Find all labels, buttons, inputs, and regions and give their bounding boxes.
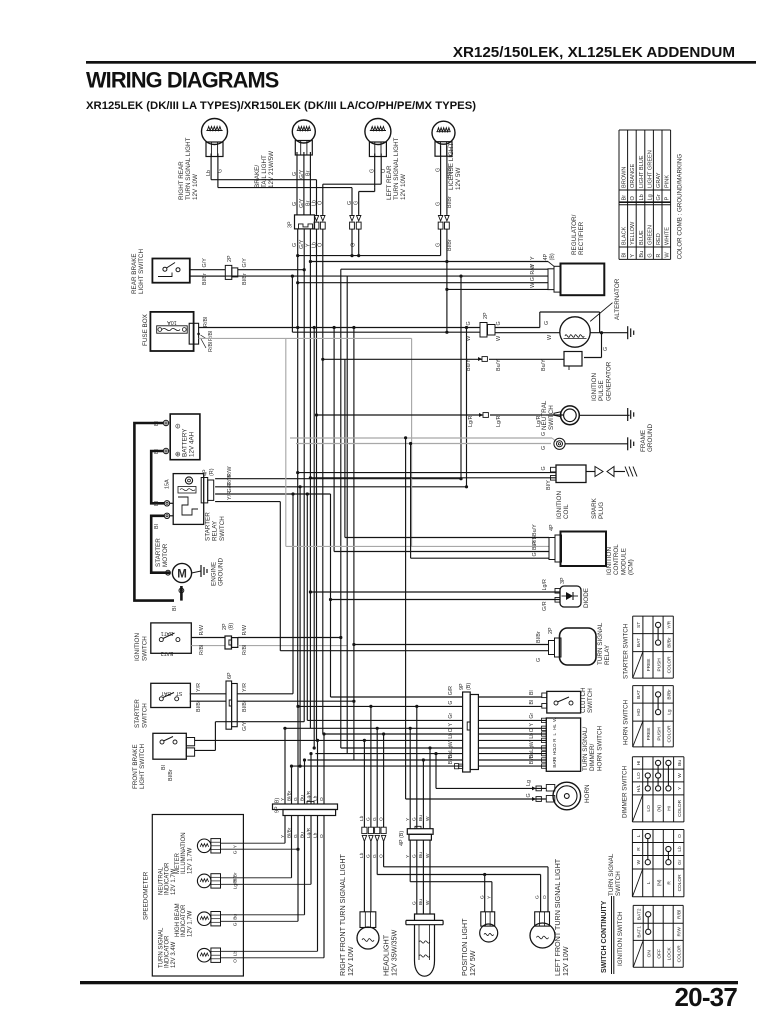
svg-text:G: G (292, 202, 298, 206)
svg-text:G/Y: G/Y (299, 198, 305, 208)
svg-text:GROUND: GROUND (647, 424, 654, 452)
svg-text:ENGINE: ENGINE (211, 562, 218, 586)
svg-text:G: G (372, 817, 378, 821)
svg-text:R: R (656, 254, 662, 258)
svg-text:HORN SWITCH: HORN SWITCH (596, 725, 603, 771)
svg-text:BAT2: BAT2 (636, 908, 642, 920)
svg-text:IGNITION: IGNITION (591, 373, 598, 401)
svg-text:YELLOW: YELLOW (630, 221, 636, 245)
svg-text:BAT1: BAT1 (161, 630, 174, 636)
svg-text:M: M (177, 569, 187, 581)
svg-text:BLACK: BLACK (622, 226, 628, 245)
svg-text:R/Bl: R/Bl (242, 645, 248, 655)
svg-text:(ICM): (ICM) (628, 559, 635, 575)
svg-text:ORANGE: ORANGE (630, 163, 636, 188)
svg-text:SWITCH: SWITCH (219, 516, 226, 541)
svg-text:STARTER: STARTER (134, 699, 141, 728)
svg-text:BRAKE/: BRAKE/ (254, 165, 261, 188)
svg-text:RELAY: RELAY (212, 520, 219, 541)
svg-text:O: O (529, 728, 535, 732)
svg-text:PLUG: PLUG (598, 502, 605, 519)
svg-text:O: O (448, 728, 454, 732)
svg-text:PUSH: PUSH (656, 727, 662, 741)
svg-text:COLOR: COLOR (666, 725, 672, 743)
svg-text:HO: HO (636, 708, 642, 715)
svg-text:LEFT REAR: LEFT REAR (386, 165, 393, 200)
svg-text:DIMMER SWITCH: DIMMER SWITCH (622, 765, 629, 818)
svg-text:RECTIFIER: RECTIFIER (578, 221, 585, 255)
svg-text:Bl: Bl (529, 690, 535, 695)
svg-text:Bl/Br: Bl/Br (447, 239, 453, 251)
svg-text:Lg/R: Lg/R (542, 579, 548, 590)
svg-text:TAIL LIGHT: TAIL LIGHT (261, 155, 268, 188)
svg-text:G: G (370, 169, 376, 173)
svg-text:12V 5W: 12V 5W (468, 950, 477, 976)
svg-text:BAT1: BAT1 (636, 926, 642, 938)
svg-text:COIL: COIL (563, 504, 570, 519)
svg-text:SPARK: SPARK (591, 497, 598, 519)
svg-text:Y/R: Y/R (242, 683, 248, 692)
svg-text:ILLUMINATION: ILLUMINATION (181, 832, 187, 874)
svg-text:SWITCH: SWITCH (615, 871, 622, 896)
svg-text:BAT2: BAT2 (161, 650, 174, 656)
svg-text:RELAY: RELAY (604, 644, 611, 665)
svg-text:Gr: Gr (656, 194, 662, 200)
svg-text:HI: HI (667, 806, 673, 811)
svg-text:O: O (630, 196, 636, 201)
svg-text:Lb: Lb (677, 846, 683, 852)
svg-text:BLUE: BLUE (639, 230, 645, 245)
svg-text:Y: Y (529, 723, 535, 727)
svg-text:(N): (N) (656, 805, 662, 812)
svg-text:G: G (366, 817, 372, 821)
svg-text:6P: 6P (227, 672, 233, 679)
svg-text:12V 3.4W: 12V 3.4W (171, 941, 177, 968)
svg-text:Bl/Y: Bl/Y (546, 480, 552, 490)
svg-text:G/Y: G/Y (202, 258, 208, 268)
svg-text:G: G (530, 277, 536, 281)
svg-text:HORN SWITCH: HORN SWITCH (623, 699, 630, 745)
svg-text:Bl/Y: Bl/Y (532, 540, 538, 550)
svg-text:COLOR: COLOR (666, 656, 672, 674)
svg-text:BAT: BAT (636, 690, 642, 699)
svg-text:Lg: Lg (448, 746, 454, 752)
svg-text:G/Y: G/Y (242, 258, 248, 268)
svg-text:REGULATOR/: REGULATOR/ (571, 214, 578, 255)
svg-text:GROUND: GROUND (218, 558, 225, 586)
svg-text:W: W (636, 859, 642, 864)
svg-text:Bl/Br: Bl/Br (666, 637, 672, 648)
svg-text:Gr: Gr (448, 713, 454, 719)
svg-text:G: G (412, 901, 418, 905)
svg-text:O: O (381, 169, 387, 173)
svg-text:R/W: R/W (530, 263, 536, 274)
svg-text:G: G (347, 201, 353, 205)
svg-text:R: R (667, 881, 673, 885)
svg-text:9P (B): 9P (B) (275, 798, 281, 813)
svg-text:Bl/Br: Bl/Br (447, 166, 453, 178)
svg-text:IGNITION SWITCH: IGNITION SWITCH (617, 911, 624, 966)
svg-text:12V 4AH: 12V 4AH (189, 431, 196, 457)
svg-text:Br: Br (305, 170, 311, 176)
svg-text:12V 1.7W: 12V 1.7W (187, 910, 193, 937)
svg-text:Bl/Br: Bl/Br (242, 273, 248, 285)
svg-text:LIGHT GREEN: LIGHT GREEN (647, 150, 653, 188)
svg-text:Y/R: Y/R (227, 491, 233, 500)
svg-text:PINK: PINK (665, 175, 671, 188)
svg-text:HI: HI (636, 760, 642, 765)
svg-text:15A: 15A (165, 479, 171, 489)
svg-text:LO: LO (636, 772, 642, 779)
svg-text:2P: 2P (227, 255, 233, 262)
svg-text:Bu/Y: Bu/Y (532, 524, 538, 536)
svg-text:FREE: FREE (646, 659, 652, 672)
svg-text:G: G (292, 172, 298, 176)
svg-text:G: G (435, 168, 441, 172)
svg-text:Bu: Bu (639, 251, 645, 258)
svg-text:LIGHT SWITCH: LIGHT SWITCH (138, 249, 145, 294)
svg-text:IGNITION: IGNITION (556, 491, 563, 519)
svg-text:G: G (479, 895, 485, 899)
svg-text:Bl: Bl (622, 253, 628, 258)
svg-text:Bl: Bl (161, 765, 167, 770)
svg-text:LICENSE LIGHT: LICENSE LIGHT (448, 143, 455, 190)
svg-text:RIGHT REAR: RIGHT REAR (178, 161, 185, 200)
svg-text:12V 10W: 12V 10W (561, 946, 570, 976)
svg-text:IGNITION: IGNITION (134, 633, 141, 661)
svg-text:(N): (N) (656, 879, 662, 886)
svg-text:SWITCH: SWITCH (587, 688, 594, 713)
svg-text:G/R: G/R (448, 686, 454, 695)
svg-text:9P: 9P (459, 683, 465, 690)
svg-text:Bl: Bl (154, 524, 160, 529)
svg-text:SWITCH: SWITCH (142, 636, 149, 661)
svg-text:COLOR: COLOR (677, 799, 683, 817)
svg-text:O: O (378, 817, 384, 821)
svg-text:BATTERY: BATTERY (182, 428, 189, 457)
svg-text:⊖: ⊖ (175, 423, 182, 429)
svg-text:R/W: R/W (676, 927, 682, 937)
svg-text:Lg: Lg (529, 746, 535, 752)
svg-text:Bu/Y: Bu/Y (541, 359, 547, 371)
svg-text:Bl/Br: Bl/Br (202, 273, 208, 285)
svg-text:XR125/150LEK, XL125LEK ADDENDU: XR125/150LEK, XL125LEK ADDENDUM (453, 44, 735, 61)
svg-text:LIGHT BLUE: LIGHT BLUE (639, 155, 645, 188)
svg-text:3P: 3P (560, 577, 566, 584)
svg-text:TURN SIGNAL: TURN SIGNAL (608, 853, 615, 896)
svg-text:Lb: Lb (639, 194, 645, 200)
svg-text:COLOR COMB : GROUND/MARKING: COLOR COMB : GROUND/MARKING (677, 154, 684, 260)
svg-text:INDICATOR: INDICATOR (165, 862, 171, 895)
svg-text:4P: 4P (543, 254, 549, 261)
svg-text:BAT: BAT (552, 759, 557, 768)
svg-text:GENERATOR: GENERATOR (605, 361, 612, 401)
svg-text:4P (B): 4P (B) (399, 831, 405, 846)
svg-text:Bu: Bu (677, 760, 683, 766)
svg-text:O: O (318, 201, 324, 205)
svg-text:G/Y: G/Y (299, 169, 305, 179)
svg-text:HORN: HORN (584, 784, 591, 803)
svg-text:Lg: Lg (647, 194, 653, 200)
svg-text:G: G (233, 922, 239, 926)
svg-text:REAR BRAKE: REAR BRAKE (131, 253, 138, 294)
svg-text:Y: Y (630, 254, 636, 258)
svg-text:G: G (526, 793, 532, 797)
svg-text:G: G (354, 201, 360, 205)
svg-text:4P: 4P (203, 469, 209, 476)
svg-text:Lb: Lb (529, 733, 535, 739)
svg-text:FREE: FREE (646, 728, 652, 741)
svg-text:W: W (552, 717, 557, 722)
svg-text:Bl/Br: Bl/Br (168, 769, 174, 781)
svg-text:12V 35W/35W: 12V 35W/35W (390, 929, 399, 976)
svg-text:GREEN: GREEN (647, 225, 653, 245)
svg-text:2P: 2P (548, 627, 554, 634)
svg-text:G: G (448, 701, 454, 705)
svg-text:R/Bl: R/Bl (203, 317, 209, 327)
svg-text:2P: 2P (483, 312, 489, 319)
svg-text:Gr: Gr (529, 713, 535, 719)
svg-text:PULSE: PULSE (598, 380, 605, 401)
svg-text:TURN SIGNAL LIGHT: TURN SIGNAL LIGHT (185, 137, 192, 200)
svg-text:G: G (647, 253, 653, 257)
svg-text:IGNITION: IGNITION (606, 547, 613, 575)
svg-text:BROWN: BROWN (622, 167, 628, 188)
svg-text:ON: ON (646, 950, 652, 958)
svg-text:Br: Br (622, 195, 628, 201)
svg-text:G: G (466, 321, 472, 325)
svg-text:(B): (B) (550, 253, 556, 260)
svg-text:PUSH: PUSH (656, 658, 662, 672)
svg-text:FRONT BRAKE: FRONT BRAKE (132, 744, 139, 789)
svg-text:2P: 2P (222, 623, 228, 630)
svg-text:LO: LO (646, 805, 652, 812)
svg-text:COLOR: COLOR (677, 874, 683, 892)
svg-text:Bl/Br: Bl/Br (666, 689, 672, 700)
svg-text:FUSE BOX: FUSE BOX (142, 313, 149, 346)
svg-text:INDICATOR: INDICATOR (181, 904, 187, 937)
svg-text:Bu: Bu (418, 899, 424, 905)
svg-text:Lg/R: Lg/R (496, 416, 502, 427)
svg-text:W: W (665, 252, 671, 258)
svg-text:Y: Y (530, 256, 536, 260)
svg-text:W: W (425, 900, 431, 905)
svg-text:W: W (677, 773, 683, 778)
svg-text:Lb: Lb (448, 733, 454, 739)
svg-text:SWITCH: SWITCH (548, 405, 555, 430)
svg-text:L: L (552, 733, 557, 736)
svg-text:MOTOR: MOTOR (162, 543, 169, 567)
svg-text:ST: ST (636, 622, 642, 628)
svg-text:DIODE: DIODE (583, 588, 590, 608)
svg-text:(R): (R) (209, 468, 215, 476)
svg-text:RED: RED (656, 233, 662, 245)
svg-text:GRAY: GRAY (656, 172, 662, 188)
svg-text:INDICATOR: INDICATOR (165, 935, 171, 968)
svg-text:(B): (B) (466, 683, 472, 690)
svg-text:HIGH BEAM: HIGH BEAM (175, 903, 181, 937)
svg-text:H/L: H/L (636, 784, 642, 792)
svg-text:4P: 4P (549, 524, 555, 531)
svg-text:W: W (425, 816, 431, 821)
svg-text:STARTER SWITCH: STARTER SWITCH (623, 623, 630, 679)
svg-text:LOCK: LOCK (666, 946, 672, 960)
svg-text:MODULE: MODULE (620, 548, 627, 575)
svg-text:CONTROL: CONTROL (613, 544, 620, 575)
svg-text:Lg: Lg (526, 780, 532, 786)
svg-text:Y/R: Y/R (196, 683, 202, 692)
svg-text:Bl/Br: Bl/Br (529, 753, 535, 765)
svg-text:Lb: Lb (311, 200, 317, 206)
svg-text:TURN SIGNAL LIGHT: TURN SIGNAL LIGHT (393, 137, 400, 200)
svg-text:12V 5W: 12V 5W (455, 168, 462, 190)
svg-text:G/Y: G/Y (242, 721, 248, 731)
svg-text:Bl: Bl (154, 501, 160, 506)
svg-text:STARTER: STARTER (155, 538, 162, 567)
svg-text:P: P (665, 197, 671, 201)
svg-text:G: G (532, 552, 538, 556)
svg-text:Bl: Bl (529, 700, 535, 705)
svg-text:Br: Br (305, 200, 311, 206)
svg-text:OFF: OFF (656, 949, 662, 959)
svg-text:O: O (542, 895, 548, 899)
svg-text:NEUTRAL: NEUTRAL (541, 400, 548, 430)
svg-text:Bl/Br: Bl/Br (448, 753, 454, 765)
svg-text:G: G (536, 658, 542, 662)
svg-text:Lb: Lb (359, 815, 365, 821)
svg-text:W: W (448, 741, 454, 746)
svg-text:Gr: Gr (677, 859, 683, 865)
svg-text:WHITE: WHITE (665, 227, 671, 245)
svg-text:Bl/Br: Bl/Br (242, 700, 248, 712)
svg-text:COLOR: COLOR (676, 945, 682, 963)
svg-text:Y/R: Y/R (666, 620, 672, 629)
svg-text:Bl: Bl (172, 606, 178, 611)
svg-text:TURN SIGNAL/: TURN SIGNAL/ (582, 727, 589, 771)
svg-text:Bl/Br: Bl/Br (196, 700, 202, 712)
svg-text:SWITCH CONTINUITY: SWITCH CONTINUITY (601, 900, 608, 973)
svg-text:12V 1.7W: 12V 1.7W (171, 868, 177, 895)
svg-text:CLUTCH: CLUTCH (580, 687, 587, 713)
svg-text:BAT: BAT (636, 638, 642, 647)
svg-text:Lb: Lb (206, 170, 212, 176)
svg-text:Y: Y (448, 723, 454, 727)
svg-text:STARTER: STARTER (205, 512, 212, 541)
svg-text:TURN SIGNAL: TURN SIGNAL (597, 622, 604, 665)
svg-text:FRAME: FRAME (640, 430, 647, 452)
svg-text:3P: 3P (288, 221, 294, 228)
svg-text:ST: ST (175, 690, 182, 696)
svg-text:G: G (541, 432, 547, 436)
svg-text:20-37: 20-37 (675, 982, 738, 1012)
svg-text:R/W: R/W (242, 624, 248, 635)
svg-text:G: G (292, 243, 298, 247)
svg-text:R/Bl: R/Bl (208, 331, 214, 341)
svg-text:WIRING DIAGRAMS: WIRING DIAGRAMS (86, 68, 279, 93)
svg-text:10A: 10A (167, 319, 177, 325)
svg-text:HO: HO (552, 748, 557, 755)
svg-text:G: G (496, 321, 502, 325)
svg-text:LIGHT SWITCH: LIGHT SWITCH (139, 744, 146, 789)
svg-text:G: G (535, 895, 541, 899)
svg-text:12V 21W/5W: 12V 21W/5W (268, 151, 275, 188)
svg-text:G: G (233, 850, 239, 854)
svg-text:L: L (636, 834, 642, 837)
svg-text:Bu/Y: Bu/Y (496, 359, 502, 371)
svg-text:G: G (351, 243, 357, 247)
svg-text:G: G (217, 169, 223, 173)
svg-text:HL: HL (552, 723, 557, 729)
svg-text:DIMMER/: DIMMER/ (589, 743, 596, 771)
svg-text:R/Bl: R/Bl (199, 645, 205, 655)
svg-text:ALTERNATOR: ALTERNATOR (614, 278, 621, 320)
svg-text:TURN SIGNAL: TURN SIGNAL (159, 927, 165, 968)
svg-text:12V 10W: 12V 10W (346, 946, 355, 976)
svg-text:SWITCH: SWITCH (142, 703, 149, 728)
svg-text:G/R: G/R (542, 601, 548, 611)
svg-text:Lg: Lg (666, 709, 672, 715)
svg-text:G: G (541, 466, 547, 470)
svg-text:G: G (544, 321, 550, 325)
svg-text:Bu: Bu (418, 815, 424, 821)
svg-text:G: G (541, 446, 547, 450)
svg-text:12V 10W: 12V 10W (192, 174, 199, 200)
svg-text:XR125LEK (DK/III LA TYPES)/XR1: XR125LEK (DK/III LA TYPES)/XR150LEK (DK/… (86, 100, 476, 112)
svg-text:R/W: R/W (199, 624, 205, 635)
svg-text:NEUTRAL: NEUTRAL (159, 866, 165, 895)
svg-text:G: G (435, 202, 441, 206)
svg-text:Lg/R: Lg/R (468, 416, 474, 427)
svg-text:(B): (B) (229, 623, 235, 630)
svg-text:SPEEDOMETER: SPEEDOMETER (143, 871, 150, 920)
svg-text:L: L (646, 881, 652, 884)
svg-text:R/Bl: R/Bl (676, 910, 682, 919)
svg-text:12V 10W: 12V 10W (400, 174, 407, 200)
svg-text:O: O (677, 834, 683, 838)
svg-text:O: O (233, 959, 239, 963)
svg-text:G: G (603, 347, 609, 351)
svg-text:Bl/Br: Bl/Br (447, 196, 453, 208)
svg-text:W: W (529, 741, 535, 746)
svg-text:G: G (412, 817, 418, 821)
svg-text:Bl/Br: Bl/Br (536, 631, 542, 643)
svg-text:Bu/Y: Bu/Y (466, 359, 472, 371)
svg-text:R/Bl: R/Bl (208, 342, 214, 352)
svg-text:R: R (636, 847, 642, 851)
svg-text:12V 1.7W: 12V 1.7W (187, 847, 193, 874)
